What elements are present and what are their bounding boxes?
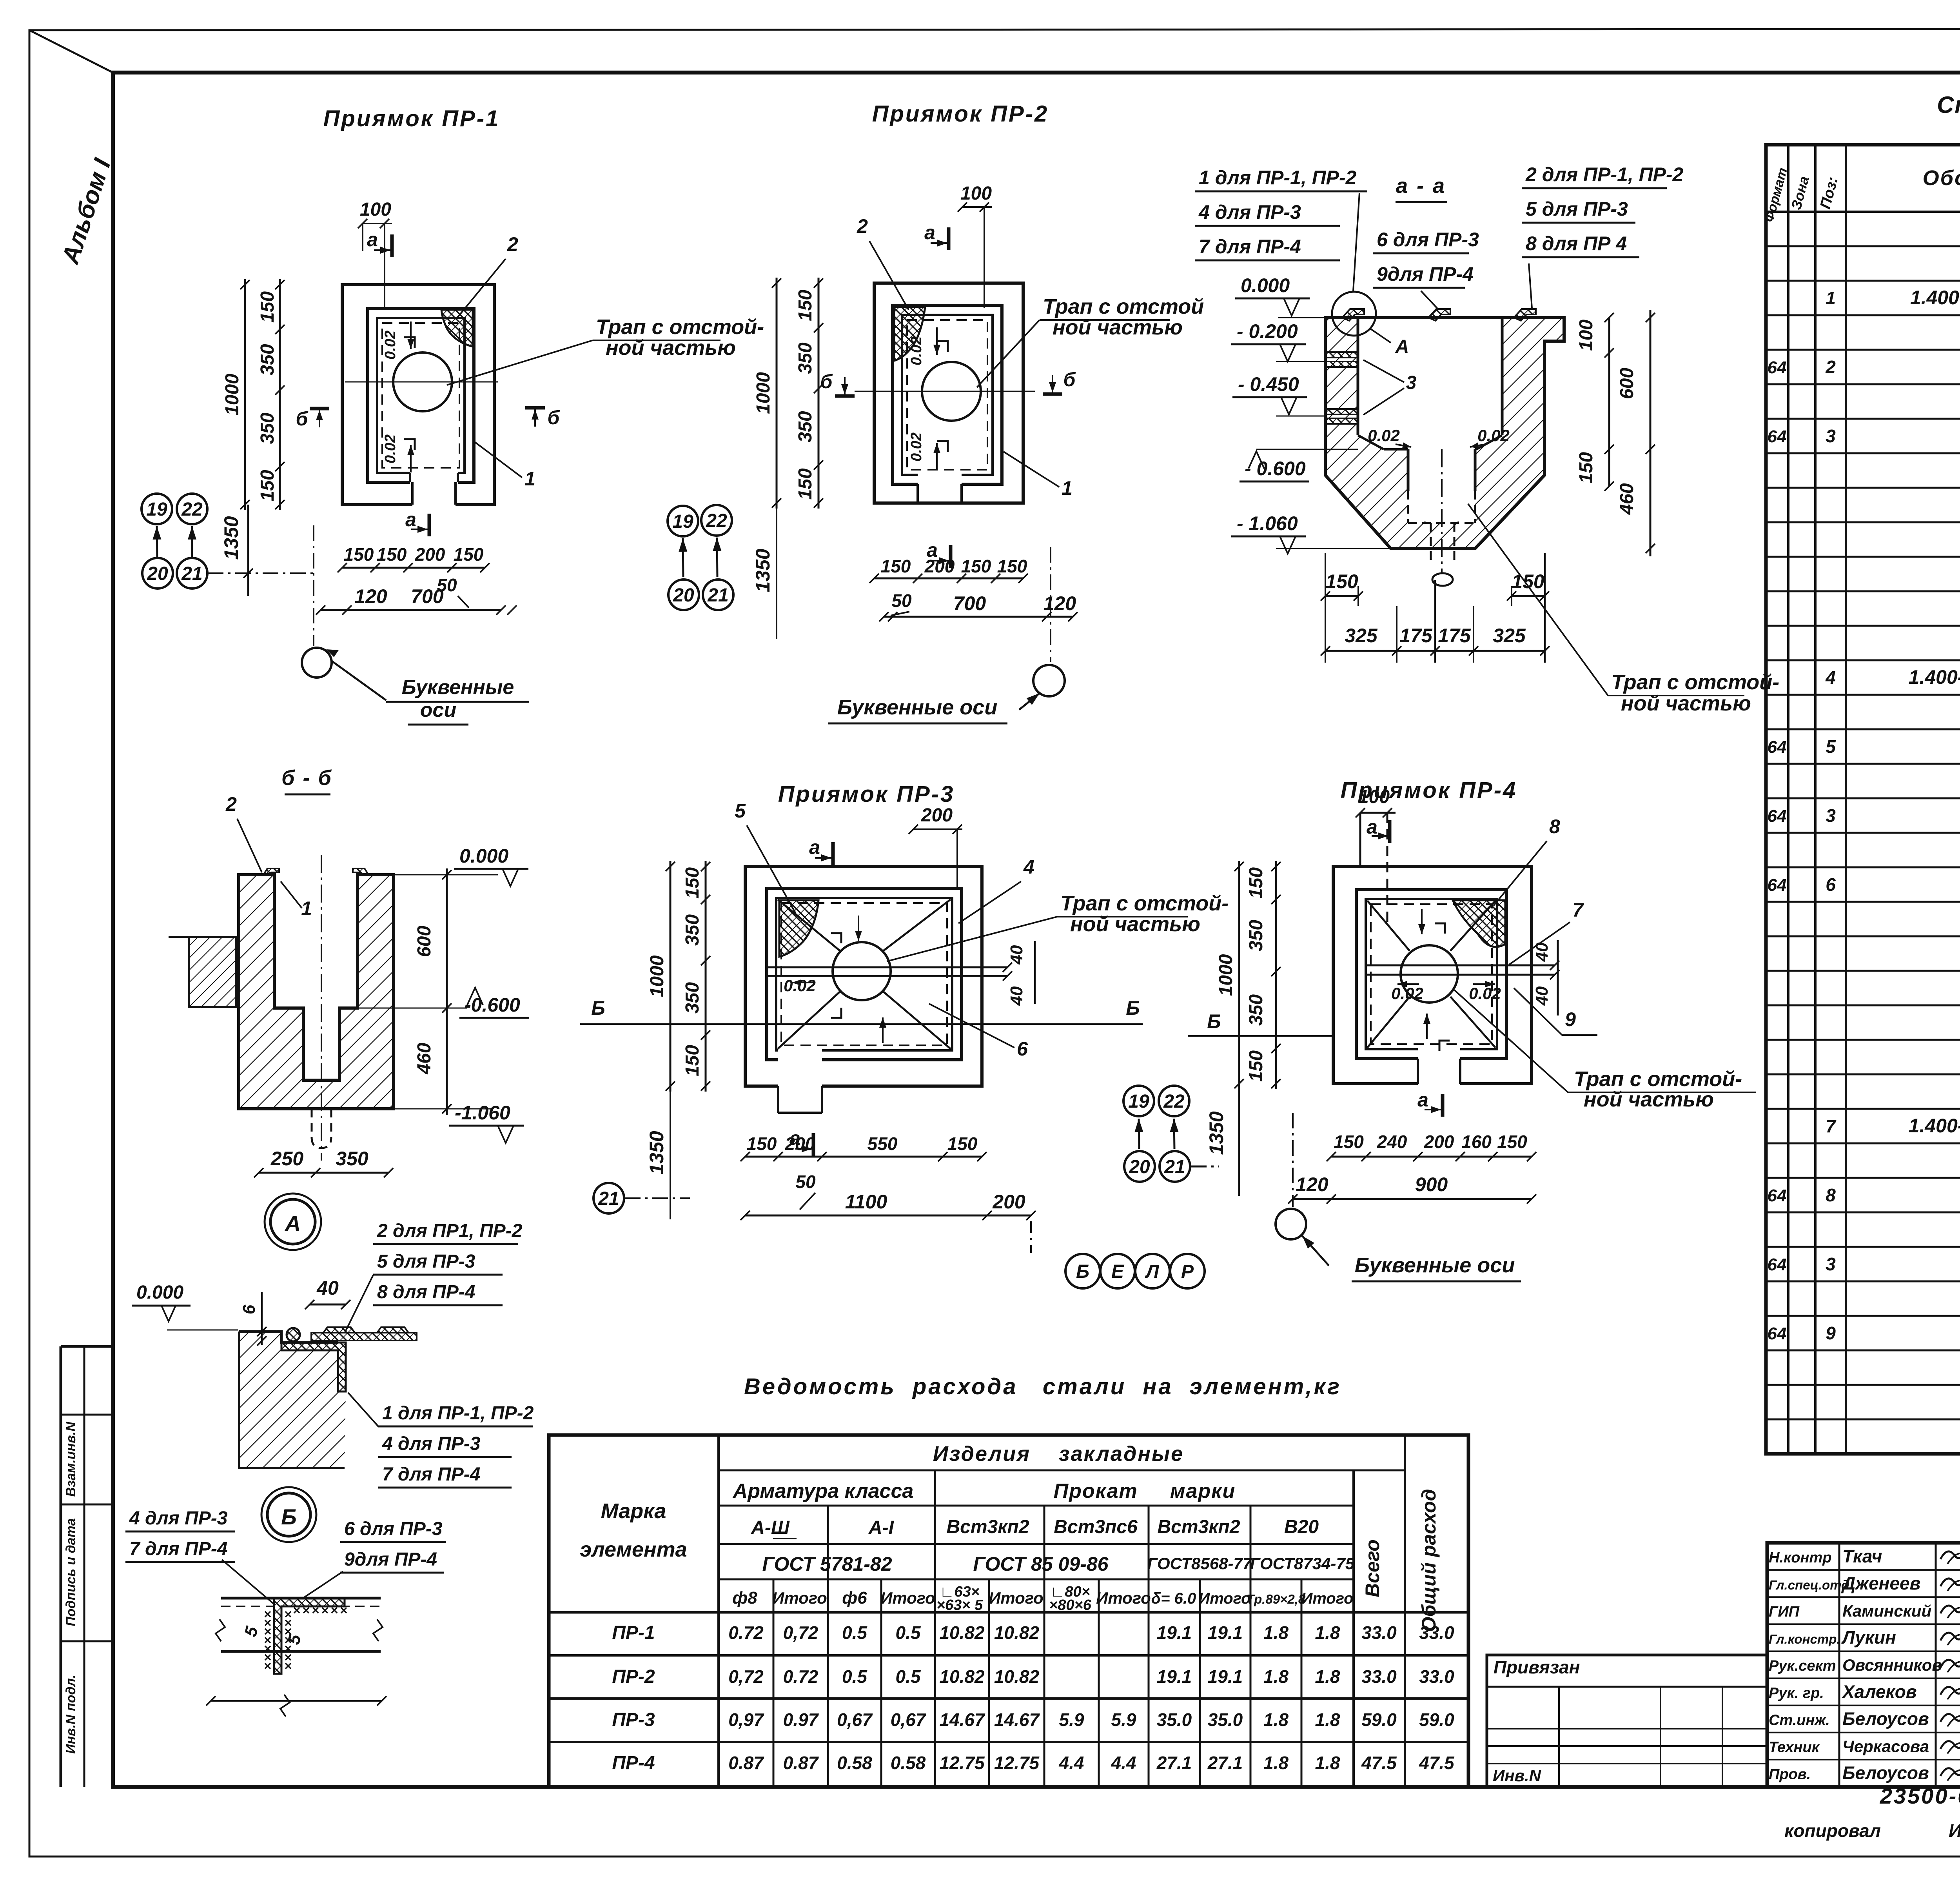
svg-text:150: 150	[1512, 570, 1544, 592]
svg-text:64: 64	[1768, 1186, 1787, 1205]
svg-text:Б: Б	[1207, 1010, 1221, 1032]
svg-text:2: 2	[1825, 357, 1836, 377]
svg-text:б: б	[296, 408, 309, 430]
plan PR-3 trap circle	[833, 942, 891, 1000]
plan PR-3 bottom dims	[745, 1156, 982, 1158]
svg-text:50: 50	[437, 575, 457, 595]
svg-text:150: 150	[961, 556, 991, 576]
svg-text:12.75: 12.75	[994, 1753, 1040, 1773]
svg-text:Трап с отстой-: Трап с отстой-	[1611, 670, 1779, 694]
svg-text:Вст3кп2: Вст3кп2	[946, 1517, 1029, 1537]
svg-text:0.5: 0.5	[842, 1622, 867, 1643]
svg-text:20: 20	[673, 585, 694, 606]
svg-text:Итого: Итого	[772, 1589, 827, 1607]
svg-text:200: 200	[785, 1134, 815, 1154]
svg-text:6: 6	[1017, 1038, 1028, 1060]
svg-text:1 для ПР-1, ПР-2: 1 для ПР-1, ПР-2	[382, 1403, 534, 1424]
plan PR-4 axis bubbles left	[1123, 1086, 1154, 1116]
svg-text:а: а	[809, 836, 820, 858]
plan PR-1 trap circle	[393, 352, 452, 411]
svg-text:Ведомость расхода стали на: Ведомость расхода стали на элемент,кг	[744, 1374, 1341, 1399]
svg-text:В20: В20	[1284, 1517, 1319, 1537]
svg-text:2 для ПР1, ПР-2: 2 для ПР1, ПР-2	[377, 1221, 523, 1241]
svg-text:Марка: Марка	[601, 1499, 666, 1523]
svg-text:100: 100	[1576, 320, 1597, 351]
svg-text:0,67: 0,67	[891, 1709, 927, 1730]
svg-text:Инв.N подл.: Инв.N подл.	[64, 1675, 78, 1754]
svg-text:6: 6	[1826, 874, 1836, 895]
svg-text:175: 175	[1399, 625, 1433, 647]
svg-text:250: 250	[270, 1148, 304, 1170]
plan PR-4 bottom dims	[1331, 1156, 1532, 1158]
svg-text:59.0: 59.0	[1419, 1709, 1454, 1730]
svg-text:а - а: а - а	[1396, 174, 1446, 198]
plan PR-2 axis bubbles	[668, 506, 698, 536]
svg-text:0.72: 0.72	[728, 1622, 764, 1643]
plan PR-1 pit walls	[368, 309, 474, 482]
svg-text:А-Ш: А-Ш	[751, 1517, 790, 1538]
svg-text:3: 3	[1826, 426, 1836, 446]
svg-text:59.0: 59.0	[1361, 1709, 1397, 1730]
svg-text:7: 7	[1826, 1116, 1837, 1136]
svg-text:0.97: 0.97	[783, 1709, 819, 1730]
svg-text:8 для ПР-4: 8 для ПР-4	[377, 1282, 475, 1303]
svg-text:Итого: Итого	[880, 1589, 935, 1607]
svg-text:ПР-4: ПР-4	[612, 1753, 655, 1773]
svg-text:100: 100	[1358, 787, 1390, 807]
svg-text:Ст.инж.: Ст.инж.	[1769, 1712, 1830, 1728]
plan PR-3 pit walls	[767, 888, 962, 1060]
a-a section body hatched	[1325, 318, 1564, 549]
svg-text:1000: 1000	[222, 374, 243, 416]
plan PR-2 outer block	[874, 283, 1023, 503]
svg-text:Пров.: Пров.	[1769, 1766, 1811, 1783]
svg-text:0.02: 0.02	[382, 434, 399, 463]
svg-text:19: 19	[146, 499, 167, 520]
plan PR-3 left dims	[670, 861, 671, 1092]
svg-text:5.9: 5.9	[1111, 1709, 1136, 1730]
svg-text:50: 50	[891, 590, 912, 611]
svg-text:1100: 1100	[845, 1191, 887, 1213]
svg-text:4 для ПР-3: 4 для ПР-3	[382, 1433, 481, 1454]
svg-text:350: 350	[682, 982, 703, 1014]
svg-text:120: 120	[354, 585, 387, 607]
svg-text:Вст3кп2: Вст3кп2	[1157, 1517, 1240, 1537]
svg-text:9для ПР-4: 9для ПР-4	[1377, 263, 1474, 285]
svg-text:0,97: 0,97	[728, 1709, 764, 1730]
svg-text:550: 550	[867, 1134, 898, 1154]
svg-text:Б: Б	[591, 997, 605, 1019]
svg-text:200: 200	[992, 1191, 1025, 1213]
svg-text:1.8: 1.8	[1263, 1622, 1289, 1643]
svg-text:2 для ПР-1, ПР-2: 2 для ПР-1, ПР-2	[1525, 163, 1684, 185]
svg-text:Гл.констр.: Гл.констр.	[1769, 1632, 1840, 1646]
plan PR-2 embedded frame dashed	[907, 320, 987, 470]
svg-text:Л: Л	[1145, 1261, 1160, 1282]
svg-text:1.8: 1.8	[1315, 1753, 1340, 1773]
svg-text:Иноземцева: Иноземцева	[1949, 1820, 1960, 1841]
plan PR-2 left dims	[776, 278, 778, 509]
svg-text:200: 200	[924, 556, 955, 576]
svg-text:19.1: 19.1	[1208, 1666, 1243, 1687]
plan PR-1 bottom dims	[342, 567, 485, 569]
svg-text:0,72: 0,72	[728, 1666, 764, 1687]
svg-text:0,72: 0,72	[783, 1622, 818, 1643]
plan PR-1 corner hatch patch	[441, 310, 473, 347]
svg-text:1000: 1000	[753, 372, 774, 414]
svg-text:460: 460	[1617, 483, 1637, 515]
svg-text:100: 100	[360, 199, 391, 220]
svg-text:Б: Б	[1126, 997, 1140, 1019]
detail B weld crosses	[265, 1608, 347, 1669]
a-a right dims	[1608, 318, 1610, 486]
svg-text:Ткач: Ткач	[1842, 1546, 1882, 1566]
svg-text:5 для ПР-3: 5 для ПР-3	[377, 1251, 475, 1272]
svg-text:Итого: Итого	[1198, 1590, 1250, 1607]
svg-text:5 для ПР-3: 5 для ПР-3	[1526, 198, 1628, 220]
svg-text:40: 40	[1007, 986, 1026, 1006]
svg-text:1.8: 1.8	[1315, 1622, 1340, 1643]
a-a bottom dims	[1325, 318, 1326, 606]
svg-text:47.5: 47.5	[1361, 1753, 1397, 1773]
svg-text:3: 3	[1406, 372, 1417, 393]
svg-text:40: 40	[1007, 945, 1026, 965]
svg-text:6 для ПР-3: 6 для ПР-3	[1377, 229, 1479, 251]
svg-text:4.4: 4.4	[1111, 1753, 1136, 1773]
plan PR-2 pit walls	[893, 305, 1002, 484]
svg-text:240: 240	[1377, 1132, 1407, 1152]
svg-text:0.02: 0.02	[382, 331, 399, 360]
svg-text:1.400-15.В1. 550-06: 1.400-15.В1. 550-06	[1909, 666, 1960, 688]
svg-text:175: 175	[1438, 625, 1471, 647]
a-a curb embeds on top edge	[1342, 309, 1364, 321]
svg-text:0.02: 0.02	[1477, 426, 1510, 445]
svg-text:Подпись и дата: Подпись и дата	[64, 1518, 78, 1626]
svg-text:325: 325	[1493, 625, 1526, 647]
svg-text:Белоусов: Белоусов	[1842, 1708, 1929, 1729]
plan PR-2 letter axis	[1050, 547, 1051, 662]
svg-text:64: 64	[1768, 738, 1787, 757]
svg-text:Изделия закладные: Изделия закладные	[933, 1442, 1184, 1466]
plan PR-1 outer block	[342, 285, 494, 505]
plan PR-3 channel double line	[767, 966, 1007, 968]
detail B bottom dim	[211, 1700, 382, 1702]
svg-text:150: 150	[997, 556, 1027, 576]
svg-text:б: б	[1063, 369, 1076, 391]
svg-text:350: 350	[257, 344, 278, 375]
b-b bottom dims	[259, 1172, 388, 1174]
svg-text:1: 1	[524, 468, 535, 490]
svg-text:Рук. гр.: Рук. гр.	[1769, 1685, 1824, 1701]
svg-text:Рук.сект: Рук.сект	[1769, 1658, 1836, 1674]
detail A thickness 6 dim	[261, 1292, 263, 1345]
svg-text:64: 64	[1768, 876, 1787, 895]
detail A floor plate	[311, 1333, 417, 1341]
svg-text:150: 150	[377, 544, 407, 565]
svg-text:7 для ПР-4: 7 для ПР-4	[382, 1464, 480, 1485]
plan PR-4 cut marks	[1388, 820, 1392, 843]
svg-text:350: 350	[1246, 920, 1267, 951]
svg-text:Б: Б	[1076, 1261, 1089, 1282]
svg-text:Приямок ПР-2: Приямок ПР-2	[872, 101, 1049, 127]
plan PR-1 top dim 100	[363, 223, 392, 224]
svg-text:33.0: 33.0	[1361, 1622, 1397, 1643]
svg-text:Трап с отстой: Трап с отстой	[1043, 295, 1204, 318]
svg-text:27.1: 27.1	[1207, 1753, 1243, 1773]
svg-text:Прокат марки: Прокат марки	[1054, 1480, 1236, 1502]
svg-text:0.87: 0.87	[783, 1753, 819, 1773]
plan PR-3 cut marks	[831, 842, 835, 865]
svg-text:150: 150	[1246, 1050, 1267, 1082]
svg-text:160: 160	[1461, 1132, 1492, 1152]
svg-text:-1.060: -1.060	[455, 1102, 510, 1124]
svg-text:0.000: 0.000	[1241, 274, 1290, 296]
plan PR-3 letter axis bubbles	[1030, 1221, 1032, 1253]
svg-text:19: 19	[1128, 1091, 1149, 1112]
b-b right dims	[446, 868, 448, 1115]
svg-text:Гл.спец.отд: Гл.спец.отд	[1769, 1578, 1849, 1592]
svg-text:27.1: 27.1	[1156, 1753, 1192, 1773]
svg-text:0.000: 0.000	[136, 1282, 183, 1303]
svg-text:Всего: Всего	[1361, 1539, 1383, 1597]
svg-text:64: 64	[1768, 358, 1787, 377]
svg-text:Буквенные оси: Буквенные оси	[1355, 1253, 1515, 1277]
svg-text:150: 150	[795, 290, 816, 321]
svg-text:7 для ПР-4: 7 для ПР-4	[1199, 236, 1301, 258]
plan PR-4 letter axis circle	[1292, 1113, 1294, 1207]
detail A bolt	[287, 1328, 300, 1341]
corner fold line	[29, 30, 113, 73]
svg-text:Приямок ПР-3: Приямок ПР-3	[778, 781, 955, 807]
svg-text:Итого: Итого	[1096, 1589, 1151, 1607]
svg-text:Дженеев: Дженеев	[1841, 1573, 1920, 1593]
svg-text:ГОСТ8568-77: ГОСТ8568-77	[1147, 1554, 1252, 1573]
steel table grid	[549, 1435, 1468, 1787]
svg-text:Вст3пс6: Вст3пс6	[1054, 1517, 1138, 1537]
svg-text:1.8: 1.8	[1263, 1666, 1289, 1687]
svg-text:0.02: 0.02	[908, 336, 925, 365]
svg-text:0.000: 0.000	[459, 845, 508, 867]
svg-text:150: 150	[795, 468, 816, 500]
svg-text:10.82: 10.82	[994, 1666, 1040, 1687]
svg-text:3: 3	[1826, 805, 1836, 826]
svg-text:1: 1	[1062, 477, 1073, 499]
plan PR-3 B section line	[580, 1023, 1143, 1025]
svg-text:0.02: 0.02	[1391, 984, 1423, 1003]
a-a embedded pipes pos.3	[1327, 352, 1358, 358]
plan PR-2 top dim 100	[962, 206, 992, 208]
svg-text:Халеков: Халеков	[1841, 1681, 1917, 1702]
plan PR-1 cut marks	[390, 234, 394, 257]
svg-text:4: 4	[1825, 667, 1836, 688]
svg-text:150: 150	[1334, 1132, 1364, 1152]
svg-text:×63× 5: ×63× 5	[936, 1597, 983, 1613]
plan PR-2 trap circle	[922, 362, 981, 421]
svg-text:0.02: 0.02	[784, 976, 816, 995]
svg-text:1.8: 1.8	[1315, 1666, 1340, 1687]
svg-text:2: 2	[225, 793, 237, 815]
svg-text:4.4: 4.4	[1059, 1753, 1084, 1773]
svg-text:а: а	[924, 222, 935, 243]
svg-text:5: 5	[735, 800, 746, 822]
plan PR-2 cut marks	[947, 227, 951, 250]
svg-text:1350: 1350	[646, 1131, 668, 1174]
svg-text:150: 150	[454, 544, 484, 565]
plan PR-2 corner hatch patch	[894, 307, 925, 361]
detail A 40 dim	[310, 1304, 346, 1306]
svg-text:200: 200	[415, 544, 445, 565]
plan PR-2 bottom dims	[874, 578, 1023, 579]
svg-text:150: 150	[682, 1045, 703, 1076]
svg-text:а: а	[367, 229, 378, 251]
svg-text:Тр.89×2,8: Тр.89×2,8	[1247, 1592, 1306, 1606]
svg-text:0.5: 0.5	[896, 1666, 921, 1687]
svg-text:δ= 6.0: δ= 6.0	[1151, 1590, 1196, 1607]
plan PR-4 left dims	[1238, 861, 1240, 1089]
svg-text:Черкасова: Черкасова	[1842, 1737, 1929, 1756]
svg-text:- 0.200: - 0.200	[1237, 320, 1298, 342]
svg-text:40: 40	[316, 1277, 339, 1299]
svg-text:64: 64	[1768, 1324, 1787, 1343]
svg-text:ПР-3: ПР-3	[612, 1709, 655, 1730]
svg-text:33.0: 33.0	[1361, 1666, 1397, 1687]
svg-text:700: 700	[953, 592, 986, 614]
svg-text:35.0: 35.0	[1208, 1709, 1243, 1730]
svg-text:21: 21	[1164, 1157, 1185, 1177]
svg-text:3: 3	[1826, 1254, 1836, 1274]
svg-text:-0.600: -0.600	[465, 994, 520, 1016]
svg-text:1.8: 1.8	[1263, 1709, 1289, 1730]
svg-text:2: 2	[857, 215, 868, 237]
svg-text:1.400-15.81. 550-06: 1.400-15.81. 550-06	[1910, 287, 1960, 309]
svg-text:22: 22	[706, 510, 727, 531]
svg-text:×80×6: ×80×6	[1049, 1597, 1092, 1613]
svg-text:1.8: 1.8	[1315, 1709, 1340, 1730]
svg-text:А: А	[1395, 336, 1409, 357]
svg-text:Спецификация приямков ПР: Спецификация приямков ПР-1... ПР4	[1937, 92, 1960, 118]
svg-text:ГОСТ8734-75: ГОСТ8734-75	[1250, 1554, 1355, 1573]
svg-text:Е: Е	[1111, 1261, 1125, 1282]
svg-text:600: 600	[414, 926, 435, 957]
svg-text:б: б	[548, 407, 561, 429]
svg-text:19.1: 19.1	[1157, 1666, 1192, 1687]
svg-text:Итого: Итого	[989, 1589, 1044, 1607]
svg-text:2: 2	[507, 233, 518, 255]
svg-text:10.82: 10.82	[939, 1666, 985, 1687]
svg-text:33.0: 33.0	[1419, 1666, 1454, 1687]
svg-text:Приямок ПР-1: Приямок ПР-1	[323, 106, 500, 131]
a-a detail A callout circle	[1332, 292, 1376, 336]
svg-text:1: 1	[301, 897, 312, 919]
svg-text:Общий расход: Общий расход	[1418, 1489, 1440, 1632]
svg-text:6 для ПР-3: 6 для ПР-3	[344, 1519, 443, 1539]
svg-text:Каминский: Каминский	[1842, 1602, 1931, 1620]
svg-text:350: 350	[795, 342, 816, 374]
svg-text:22: 22	[181, 499, 203, 520]
svg-text:8: 8	[1826, 1185, 1836, 1205]
a-a outline	[1325, 318, 1564, 549]
svg-text:1000: 1000	[1216, 954, 1236, 996]
svg-text:150: 150	[257, 291, 278, 323]
svg-text:150: 150	[1576, 452, 1597, 483]
svg-text:А-I: А-I	[868, 1517, 895, 1538]
svg-text:1000: 1000	[647, 955, 668, 997]
svg-text:- 0.450: - 0.450	[1238, 373, 1299, 395]
svg-text:350: 350	[682, 914, 703, 946]
plan PR-3 outer block	[745, 867, 982, 1086]
svg-text:Лукин: Лукин	[1841, 1627, 1896, 1648]
svg-text:21: 21	[707, 585, 728, 606]
svg-text:б - б: б - б	[281, 766, 332, 790]
svg-text:ГОСТ 5781-82: ГОСТ 5781-82	[762, 1553, 892, 1575]
svg-text:1.8: 1.8	[1263, 1753, 1289, 1773]
svg-text:5.9: 5.9	[1059, 1709, 1084, 1730]
b-b mouth embed plates	[263, 868, 279, 875]
plan PR-4 pit walls	[1356, 890, 1506, 1059]
svg-text:Белоусов: Белоусов	[1842, 1763, 1929, 1783]
svg-text:Трап с отстой-: Трап с отстой-	[1060, 892, 1229, 915]
svg-text:Буквенные: Буквенные	[402, 676, 514, 699]
a-a drain pipe dashed	[1430, 523, 1432, 561]
svg-text:0.87: 0.87	[728, 1753, 764, 1773]
svg-text:10.82: 10.82	[994, 1622, 1040, 1643]
plan PR-4 corner hatch patch	[1453, 900, 1505, 947]
svg-text:1: 1	[1826, 288, 1836, 308]
detail A concrete	[239, 1332, 346, 1468]
svg-text:21: 21	[598, 1188, 619, 1209]
svg-text:150: 150	[1497, 1132, 1527, 1152]
title block signature table	[1767, 1543, 1960, 1787]
detail A embedded angle	[281, 1342, 346, 1392]
svg-text:а: а	[405, 509, 416, 530]
svg-text:Трап с отстой-: Трап с отстой-	[596, 315, 764, 339]
detail B callout bubble	[261, 1487, 316, 1542]
svg-text:21: 21	[181, 563, 202, 584]
plan PR-1 axis bubbles	[142, 494, 172, 524]
svg-text:350: 350	[257, 412, 278, 444]
svg-text:1350: 1350	[220, 516, 242, 560]
plan PR-4 top dim 100	[1360, 812, 1396, 814]
svg-text:- 1.060: - 1.060	[1237, 512, 1298, 534]
svg-text:ГОСТ 85 09-86: ГОСТ 85 09-86	[973, 1553, 1109, 1575]
svg-text:150: 150	[1246, 867, 1267, 899]
svg-text:0.02: 0.02	[1469, 984, 1501, 1003]
svg-text:150: 150	[947, 1134, 978, 1154]
spec table grid	[1766, 145, 1960, 1454]
svg-text:Инв.N: Инв.N	[1493, 1766, 1542, 1785]
svg-text:150: 150	[257, 470, 278, 501]
plan PR-4 channel double line	[1366, 965, 1555, 966]
svg-text:150: 150	[881, 556, 911, 576]
plan PR-1 embedded frame dashed	[382, 323, 459, 468]
svg-text:4: 4	[1023, 856, 1034, 878]
svg-text:350: 350	[795, 411, 816, 442]
svg-text:элемента: элемента	[580, 1538, 687, 1561]
svg-text:47.5: 47.5	[1419, 1753, 1455, 1773]
svg-text:9: 9	[1826, 1323, 1836, 1343]
svg-text:10.82: 10.82	[939, 1622, 985, 1643]
plan PR-4 diagonals	[1367, 901, 1410, 951]
svg-text:150: 150	[1325, 570, 1358, 592]
svg-text:Буквенные оси: Буквенные оси	[837, 696, 998, 719]
svg-text:150: 150	[747, 1134, 777, 1154]
svg-text:5: 5	[1826, 736, 1836, 757]
svg-text:0.72: 0.72	[783, 1666, 818, 1687]
svg-text:7: 7	[1572, 899, 1584, 921]
svg-text:460: 460	[414, 1043, 435, 1074]
svg-text:900: 900	[1415, 1174, 1448, 1195]
svg-text:9для ПР-4: 9для ПР-4	[344, 1549, 437, 1570]
